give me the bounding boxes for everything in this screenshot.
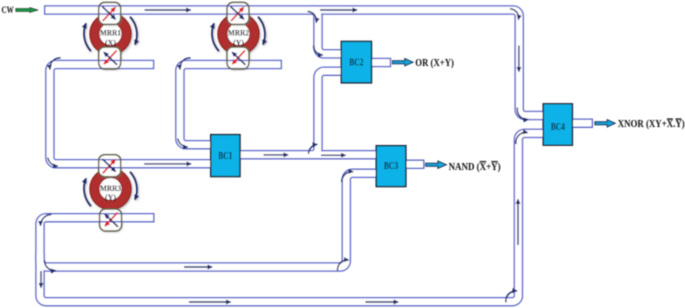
arrow BC1 to BC3 first	[264, 154, 289, 156]
arrow down right vertical to BC4	[518, 46, 520, 72]
wire BC1 to BC3 inner white	[240, 151, 377, 158]
wire BC3 output stub	[406, 160, 425, 170]
curved arrow bus top right corner	[510, 9, 519, 20]
curved arrow H265 tee right	[44, 261, 55, 271]
coupling arrows MRR2 top	[231, 7, 244, 21]
beam combiner BC1	[211, 135, 240, 177]
coupler box MRR1 top border	[99, 2, 121, 24]
curved arrow MRR2 drop corner	[180, 58, 191, 69]
svg-text:MRR1: MRR1	[100, 29, 121, 38]
svg-text:(Y): (Y)	[233, 39, 244, 48]
wire MRR3 loop inner white	[40, 133, 544, 301]
svg-text:CW: CW	[2, 6, 15, 16]
svg-text:BC3: BC3	[384, 161, 398, 172]
arrow NAND output	[426, 161, 447, 168]
wire MRR2 drop inner white	[180, 65, 281, 145]
svg-text:(X): (X)	[105, 39, 116, 48]
wire BC4 output stub	[572, 118, 593, 128]
arrow H265	[184, 266, 212, 268]
coupling arrows MRR1 top	[102, 7, 115, 21]
wire BC2 output stub	[372, 58, 392, 68]
coupler box MRR1 bottom fill	[99, 47, 121, 69]
curved arrow into BC4 lower input	[516, 132, 528, 144]
wire BC3 stub inner white	[406, 161, 424, 168]
wire BC4 stub inner white	[572, 120, 592, 127]
svg-text:MRR3: MRR3	[100, 184, 121, 193]
wire BC1 output to BC3 upper input	[240, 150, 377, 160]
arrow OR output	[393, 59, 414, 66]
curved arrow MRR3 drop corner	[41, 215, 52, 226]
svg-text:BC1: BC1	[218, 151, 232, 162]
arrow top bus after BC2 branch	[320, 9, 357, 11]
wire top bus inner white	[45, 10, 544, 116]
wire BC2 lower branch inner white	[311, 71, 342, 155]
svg-text:MRR2: MRR2	[228, 29, 249, 38]
arrow up right vertical to BC4 lower	[517, 199, 519, 245]
coupling arrows MRR3 top	[102, 159, 115, 173]
coupler box MRR2 bottom fill	[227, 47, 249, 69]
wire branch bus to BC2 upper input	[311, 10, 342, 54]
curved arrow into BC3 lower input	[342, 172, 353, 182]
wire MRR1 drop to BC1 lower input	[50, 65, 212, 164]
wire MRR2 drop to BC1 upper input	[180, 65, 282, 145]
coupler box MRR1 bottom border	[99, 47, 121, 69]
arrow down left vertical below H265 tee	[40, 271, 42, 288]
coupling arrows MRR1 bottom	[104, 50, 117, 64]
svg-text:BC4: BC4	[551, 122, 565, 133]
arrow BC1 to BC3 second	[321, 154, 346, 156]
coupler box MRR3 bottom fill	[100, 209, 122, 231]
svg-text:XNOR (XY+X.Y): XNOR (XY+X.Y)	[618, 119, 685, 130]
beam combiner BC3	[376, 146, 406, 187]
wire branch to BC2 lower input	[311, 71, 342, 155]
coupling arrows MRR3 bottom	[105, 212, 118, 226]
wire BC2 stub inner white	[372, 59, 390, 66]
coupler box MRR2 top border	[227, 2, 249, 24]
svg-text:BC2: BC2	[349, 58, 363, 69]
coupling arrows MRR2 bottom	[232, 50, 245, 64]
coupler box MRR2 bottom border	[227, 47, 249, 69]
micro-ring resonator MRR2 (Y) ring	[212, 13, 265, 54]
coupler box MRR3 bottom border	[100, 209, 122, 231]
svg-text:NAND (X+Y): NAND (X+Y)	[449, 162, 501, 173]
arrow CW input green	[16, 8, 38, 13]
coupler box MRR3 top border	[99, 155, 121, 177]
curved arrow into BC1 lower line	[48, 158, 58, 167]
wire H265 branch inner white	[40, 173, 377, 267]
beam combiner BC2	[341, 41, 371, 83]
arrow top bus after MRR1	[145, 9, 191, 11]
curved arrow into BC2 upper input	[314, 46, 323, 56]
svg-text:(Y): (Y)	[105, 193, 116, 202]
beam combiner BC4	[543, 104, 572, 145]
curved arrow tee up to BC2 lower input	[309, 144, 318, 154]
arrow MRR3 input line to BC1	[144, 163, 191, 165]
wire branch H265 to BC3 lower input	[40, 173, 377, 267]
curved arrow H265 right corner up	[337, 260, 348, 271]
arrow H300 first	[189, 301, 231, 303]
curved arrow into BC4 upper input	[517, 108, 528, 120]
svg-text:OR (X+Y): OR (X+Y)	[415, 58, 454, 69]
curved arrow into BC1 upper input	[178, 139, 188, 148]
curved arrow MRR1 drop corner	[50, 58, 61, 69]
arrow XNOR output	[595, 120, 615, 127]
wire top bus CW to BC4 upper input	[44, 10, 544, 116]
coupler box MRR1 top fill	[99, 2, 121, 24]
curved arrow bus branch down to BC2	[308, 12, 317, 23]
coupler box MRR3 top fill	[99, 155, 121, 177]
micro-ring resonator MRR1 (X) ring	[84, 13, 137, 54]
overbar marks for NAND and XNOR	[480, 118, 682, 162]
wire BC2 upper branch inner white	[311, 10, 342, 54]
coupler box MRR2 top fill	[227, 2, 249, 24]
curved arrow H300 right corner up	[506, 291, 517, 303]
arrow H300 second	[365, 301, 398, 303]
micro-ring resonator MRR3 (Y) ring	[84, 168, 137, 209]
wire MRR3 drop long loop to BC4 lower input	[40, 133, 544, 301]
wire MRR1 drop inner white	[50, 65, 212, 164]
